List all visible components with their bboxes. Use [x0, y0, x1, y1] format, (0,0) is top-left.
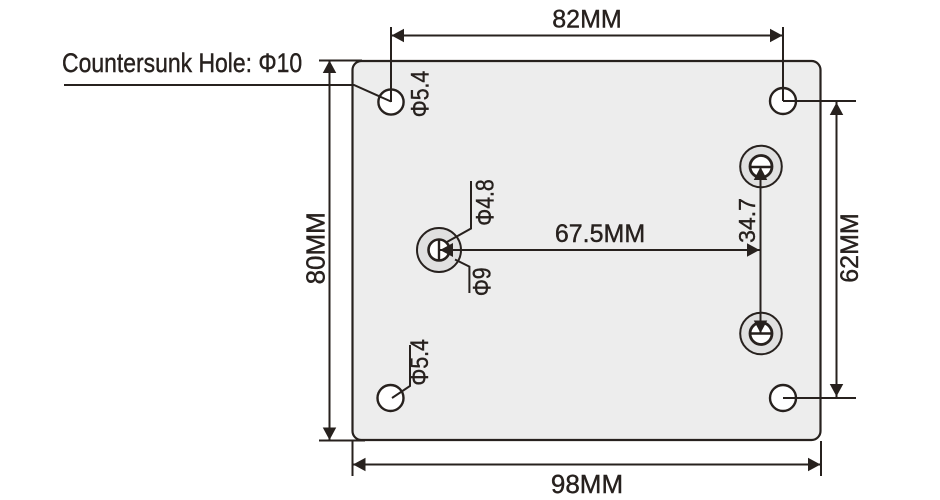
label 82MM: [552, 6, 621, 34]
label hole TL diameter (rotated): [406, 71, 434, 118]
extension line top-right (82MM): [782, 27, 784, 101]
extension line left-bottom (80MM): [319, 440, 365, 442]
corner hole bottom-right: [770, 385, 796, 411]
svg-text:Φ9: Φ9: [468, 267, 496, 296]
svg-text:Φ5.4: Φ5.4: [405, 339, 433, 386]
label 80MM (rotated): [301, 212, 331, 284]
corner hole top-left: [378, 89, 403, 114]
extension line left-top (80MM): [319, 60, 362, 62]
corner hole bottom-left: [378, 385, 404, 411]
label 98MM: [551, 469, 623, 499]
dimension line 62MM: [830, 102, 844, 397]
pivot hole top inner bore: [749, 156, 773, 178]
center hole outer ring: [417, 228, 461, 272]
svg-text:82MM: 82MM: [552, 6, 621, 34]
svg-text:67.5MM: 67.5MM: [555, 220, 645, 248]
leader line countersunk note: [64, 85, 391, 102]
note Countersunk Hole: [62, 48, 302, 78]
pivot hole bottom outer ring: [740, 313, 782, 355]
dimension line 82MM: [391, 29, 783, 43]
center hole inner bore: [429, 239, 450, 262]
svg-text:80MM: 80MM: [301, 212, 331, 284]
leader line center hole outer (9): [455, 260, 469, 294]
dimension line 80MM: [323, 60, 337, 441]
label hole BL diameter (rotated): [405, 339, 433, 386]
extension line bottom-left (98MM): [352, 441, 354, 476]
leader line center hole inner (4.8): [446, 181, 471, 243]
extension line bottom-right (98MM): [820, 441, 822, 476]
corner hole top-right: [770, 88, 796, 114]
pivot hole bottom inner bore: [749, 323, 773, 345]
label 67.5MM: [555, 220, 645, 248]
extension line right-top (62MM): [783, 100, 856, 102]
label center hole inner diameter (rotated): [471, 179, 499, 225]
dimension line 67.5MM: [440, 243, 760, 257]
extension line right-bottom (62MM): [783, 397, 856, 399]
leader line hole BL: [392, 345, 410, 398]
pivot hole top outer ring: [740, 146, 782, 188]
svg-text:Φ4.8: Φ4.8: [471, 179, 499, 225]
dimension line 34.7: [754, 167, 768, 333]
dimension line 98MM: [353, 458, 822, 472]
mounting plate outline: [353, 61, 821, 440]
extension line top-left (82MM): [390, 27, 392, 102]
svg-text:Φ5.4: Φ5.4: [406, 71, 434, 118]
svg-text:Countersunk Hole: Φ10: Countersunk Hole: Φ10: [62, 48, 302, 78]
svg-text:34.7: 34.7: [734, 198, 760, 243]
label center hole outer diameter (rotated): [468, 267, 496, 296]
svg-text:62MM: 62MM: [836, 213, 864, 282]
svg-text:98MM: 98MM: [551, 469, 623, 499]
label 34.7 (rotated): [734, 198, 760, 243]
label 62MM (rotated): [836, 213, 864, 282]
